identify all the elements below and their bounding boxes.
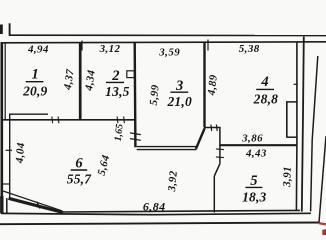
wall room3|room4 <box>203 42 205 127</box>
svg-text:6,84: 6,84 <box>143 199 166 213</box>
tick c on wall 2|6 <box>116 117 119 124</box>
left wall tick <box>6 149 13 151</box>
svg-text:3,86: 3,86 <box>241 132 263 144</box>
bottom wall lower line <box>1 213 311 214</box>
svg-text:21,0: 21,0 <box>166 94 191 109</box>
tick 1,65 upper <box>130 133 141 135</box>
vent box room2 <box>127 71 135 78</box>
svg-text:6: 6 <box>75 156 83 172</box>
room 3 underline <box>170 91 188 93</box>
svg-text:1,65: 1,65 <box>113 123 126 142</box>
svg-text:3,92: 3,92 <box>166 170 180 193</box>
tick on jog a <box>210 125 213 131</box>
tick on SW diagonal <box>37 202 40 209</box>
svg-text:3: 3 <box>175 78 183 94</box>
room6 NE wall lower line <box>137 149 197 151</box>
right outer contour line 2 <box>319 136 326 223</box>
tick on jog b <box>215 125 218 131</box>
svg-text:28,8: 28,8 <box>253 92 278 107</box>
tick d on wall 2|6 <box>123 117 126 124</box>
left wall inner line lower <box>9 114 11 198</box>
svg-text:3,91: 3,91 <box>281 166 294 188</box>
tick 4,94|3,12 <box>81 41 83 51</box>
wall room2|room3 <box>133 42 136 147</box>
svg-text:20,9: 20,9 <box>22 84 47 99</box>
tick 1,65 lower <box>130 139 141 141</box>
svg-text:5,38: 5,38 <box>239 43 260 55</box>
bottom wall upper line <box>62 210 300 212</box>
red mark line <box>319 223 326 224</box>
svg-text:1: 1 <box>31 67 38 83</box>
red corner blob <box>322 229 326 235</box>
svg-text:4,89: 4,89 <box>206 74 220 97</box>
svg-text:18,3: 18,3 <box>242 190 266 205</box>
top wall top line <box>10 34 326 36</box>
room6 NE diagonal wall <box>196 128 205 149</box>
right wall inner line <box>295 43 298 212</box>
room6 SW thick diagonal wall <box>9 198 64 212</box>
wall room1|room2 <box>79 42 82 119</box>
svg-text:4: 4 <box>260 74 268 90</box>
svg-text:4,04: 4,04 <box>14 142 28 165</box>
bottom outer contour line <box>0 223 320 225</box>
tick a on wall 1|6 <box>51 117 54 124</box>
shaft room4 bottom line <box>286 136 297 138</box>
left wall rung 2 <box>2 183 10 185</box>
top-left wall stub <box>9 23 11 36</box>
svg-text:55,7: 55,7 <box>67 172 92 187</box>
room 4 underline <box>256 88 274 90</box>
svg-text:4,94: 4,94 <box>27 43 49 55</box>
tick right wall room4 <box>294 83 298 85</box>
top-left edge bar <box>0 25 3 35</box>
tick room5 left a <box>216 148 224 151</box>
jog wall top of room5 <box>204 127 221 129</box>
left wall outer line <box>0 42 3 214</box>
left wall bottom thickening <box>0 196 3 214</box>
room 5 underline <box>245 186 262 188</box>
svg-text:5,99: 5,99 <box>148 84 162 106</box>
room6 NE wall upper line <box>137 146 196 148</box>
right wall outer line <box>302 37 304 212</box>
room5 left wall lower <box>213 176 215 213</box>
svg-text:3,59: 3,59 <box>158 47 180 59</box>
room 1 underline <box>26 81 44 83</box>
wall rooms1-2|room6 main line <box>1 119 136 121</box>
left wall inner line upper <box>4 43 6 120</box>
room 2 underline <box>106 81 124 83</box>
tick 3,59|5,38 <box>207 40 209 51</box>
tick b on wall 1|6 <box>57 117 60 124</box>
right outer contour line 1 <box>311 56 318 211</box>
shaft room4 left line <box>286 102 288 138</box>
tick room5 left b <box>216 156 224 159</box>
room5 left wall upper <box>219 128 221 164</box>
svg-text:13,5: 13,5 <box>105 84 129 99</box>
room 6 underline <box>71 169 88 171</box>
room5 left wall jog diagonal <box>214 164 220 176</box>
wall room4|room5 <box>220 144 297 146</box>
left wall lower stub <box>6 198 8 214</box>
svg-text:2: 2 <box>111 68 119 84</box>
svg-text:3,12: 3,12 <box>99 43 121 55</box>
svg-text:5: 5 <box>250 173 257 189</box>
room6 SW thin diagonal <box>3 191 62 211</box>
wall room1|room6 top line <box>9 113 48 115</box>
svg-text:4,43: 4,43 <box>245 148 267 160</box>
top wall bottom line <box>1 42 326 43</box>
shaft room4 top line <box>286 101 297 103</box>
